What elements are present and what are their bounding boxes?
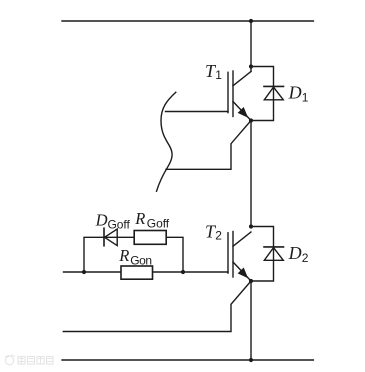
watermark logo: [5, 355, 14, 365]
node T1 emitter: [249, 118, 253, 122]
svg-text:Goff: Goff: [108, 218, 131, 232]
transistor T2 (IGBT): [228, 232, 251, 282]
wire top rail to T1 collector: [250, 21, 252, 72]
svg-text:Goff: Goff: [147, 216, 170, 230]
svg-text:R: R: [134, 209, 145, 228]
wire top rail (positive bus): [62, 20, 313, 22]
node T2 collector: [249, 224, 253, 228]
wire D1 branch: [251, 67, 274, 121]
svg-text:D: D: [288, 83, 302, 103]
wire T1 emitter to T2 collector: [250, 121, 252, 227]
wire T2 auxiliary emitter lead: [63, 281, 251, 332]
node T1 collector: [249, 64, 253, 68]
svg-text:2: 2: [215, 229, 222, 243]
watermark text: [18, 357, 53, 365]
wire bottom rail (negative bus): [62, 359, 313, 361]
node T2 emitter: [249, 279, 253, 283]
transistor T1 (IGBT): [228, 71, 251, 121]
diode DGoff: [104, 228, 117, 246]
node junction top rail: [249, 19, 253, 23]
resistor RGon: [121, 266, 153, 279]
node junction bottom rail: [249, 358, 253, 362]
wire turn-off branch (upper): [84, 237, 183, 272]
svg-text:2: 2: [302, 251, 309, 265]
wire cable-break squiggle for T1 gate drive: [157, 92, 176, 191]
wire D2 branch: [251, 227, 274, 282]
svg-text:1: 1: [215, 68, 222, 82]
resistor RGoff: [134, 231, 166, 245]
svg-text:R: R: [118, 246, 129, 265]
svg-text:Gon: Gon: [130, 253, 151, 267]
wire T1 auxiliary emitter lead: [166, 121, 251, 170]
svg-text:D: D: [288, 243, 302, 263]
node gate network left junction: [82, 270, 86, 274]
node gate network right junction: [181, 270, 185, 274]
wire T2 gate lead: [64, 271, 229, 273]
svg-text:1: 1: [302, 91, 309, 105]
diode D1: [264, 86, 284, 99]
svg-text:D: D: [95, 210, 108, 229]
wire T1 gate lead: [166, 111, 229, 113]
wire T2 emitter to bottom rail: [250, 281, 252, 360]
diode D2: [264, 247, 284, 260]
